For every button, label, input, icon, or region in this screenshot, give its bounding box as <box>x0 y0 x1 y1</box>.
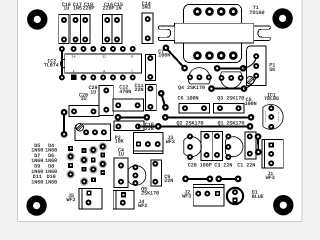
transistor Q2 2SK170 outline <box>184 137 202 157</box>
potentiometer P1 adjust screw <box>246 76 254 84</box>
capacitor C11 22N <box>134 83 156 111</box>
wire Q4 to P1 area horizontal <box>214 65 247 72</box>
svg-text:Q1 2SK170: Q1 2SK170 <box>218 121 245 127</box>
transistor Q4 pads <box>187 74 212 80</box>
connector J1 outline <box>262 140 283 168</box>
regulator IC1 78L05 outline <box>263 105 283 130</box>
label IC2 TL074 <box>44 58 59 68</box>
capacitor C20 100P <box>188 132 212 169</box>
potentiometer P2 pads <box>83 129 107 135</box>
svg-text:10K: 10K <box>115 139 124 145</box>
capacitor C15 1N <box>112 2 123 44</box>
transformer T1 right mounting fork <box>254 26 270 40</box>
label J2 WF3 <box>182 190 191 200</box>
svg-text:100N: 100N <box>158 53 170 59</box>
svg-text:BLUE: BLUE <box>252 194 264 200</box>
wire horizontal segment A (y 117) <box>115 114 150 121</box>
transformer T1 left mounting fork <box>158 26 174 40</box>
svg-text:1U: 1U <box>118 152 124 158</box>
transistor Q4 2SK170 outline <box>188 68 210 84</box>
svg-text:C3 22N: C3 22N <box>214 163 232 169</box>
svg-text:Q3 2SK170: Q3 2SK170 <box>217 96 244 102</box>
transformer T1 pads top row <box>193 7 238 16</box>
svg-text:1U: 1U <box>63 6 69 12</box>
svg-text:Q2 2SK170: Q2 2SK170 <box>177 121 204 127</box>
svg-text:3N3: 3N3 <box>142 4 151 10</box>
label J3 WF3 <box>166 135 175 145</box>
wire jumper left of J1 <box>255 133 262 155</box>
connector J3 pads <box>136 141 161 147</box>
svg-text:470N: 470N <box>119 89 131 95</box>
potentiometer P1 outline <box>247 46 266 85</box>
svg-text:WF3: WF3 <box>166 139 175 145</box>
capacitor C19 1U <box>59 2 71 44</box>
svg-text:1: 1 <box>73 69 75 73</box>
transistor Q3 2SK170 outline <box>220 72 242 88</box>
wire curve to P1 top <box>243 57 256 68</box>
svg-text:22N: 22N <box>134 87 143 93</box>
label J4 WF2 <box>138 199 147 209</box>
capacitor C10 22N <box>114 121 154 132</box>
connector J2 pads <box>195 191 220 197</box>
capacitor C1 22N <box>237 132 256 169</box>
svg-text:WF2: WF2 <box>66 197 75 203</box>
transformer T1 TO160 body <box>175 4 254 62</box>
wire above J2 left <box>182 176 213 183</box>
capacitor C5 100N <box>214 97 257 113</box>
connector J5 outline <box>79 189 102 210</box>
svg-text:C1 22N: C1 22N <box>237 163 255 169</box>
op-amp IC2 pads bottom row (pins 2-7) <box>81 74 136 80</box>
wire jumper left of IC2 <box>59 46 65 80</box>
svg-text:78L05: 78L05 <box>264 96 279 102</box>
regulator IC1 pin name marks <box>265 111 278 123</box>
connector J4 outline <box>113 190 134 209</box>
svg-text:220P: 220P <box>102 6 114 12</box>
label Q1 2SK170 <box>218 121 245 127</box>
svg-text:WF3: WF3 <box>266 175 275 181</box>
mounting hole bottom-left <box>26 195 46 215</box>
potentiometer P1 pads <box>253 53 259 78</box>
svg-text:11: 11 <box>102 55 106 59</box>
svg-text:4: 4 <box>103 69 105 73</box>
label P1 5K <box>269 63 275 73</box>
svg-text:8: 8 <box>131 55 133 59</box>
wire horizontal (y 126) <box>138 123 253 130</box>
svg-text:1N60: 1N60 <box>31 180 43 186</box>
potentiometer P2 adjust screw <box>76 123 84 131</box>
label P2 10K <box>115 135 124 145</box>
op-amp IC2 pads top row (pins 14-8) <box>71 46 136 52</box>
label J5 WF2 <box>66 193 75 203</box>
svg-text:1N: 1N <box>115 6 121 12</box>
capacitor C9 22N <box>151 160 173 186</box>
diodes D4-D11 pad grid <box>66 142 107 186</box>
wire above J2 right <box>215 176 241 183</box>
svg-text:1U: 1U <box>90 89 96 95</box>
wire jumper left of C20 <box>61 109 68 138</box>
wire curve to P1 bottom <box>244 76 256 88</box>
svg-text:100N: 100N <box>245 101 257 107</box>
capacitor C7 100N <box>145 49 170 81</box>
label T1 TO160 <box>249 5 264 16</box>
mounting hole top-right <box>272 8 292 28</box>
svg-text:1U: 1U <box>80 96 86 102</box>
mounting hole bottom-right <box>273 195 293 215</box>
capacitor C6 100N <box>178 96 210 113</box>
svg-text:C6 100N: C6 100N <box>178 96 199 102</box>
svg-text:1N60: 1N60 <box>45 180 57 186</box>
svg-text:TL074: TL074 <box>44 63 59 69</box>
label D1 BLUE <box>252 190 264 200</box>
transistor Q2 pads <box>187 133 193 160</box>
connector J3 outline <box>134 132 164 153</box>
regulator IC1 pads <box>268 105 274 130</box>
svg-text:22N: 22N <box>164 178 173 184</box>
transistor Q5 pads <box>132 164 138 186</box>
label Q4 2SK170 <box>178 85 205 91</box>
svg-text:WF2: WF2 <box>138 203 147 209</box>
svg-text:TO160: TO160 <box>249 10 264 16</box>
transistor Q1 pads <box>225 133 231 160</box>
transistor Q3 pads <box>219 75 244 81</box>
op-amp IC2 TL074 body <box>60 54 141 73</box>
capacitor C14 3N3 <box>142 1 153 43</box>
svg-text:14: 14 <box>72 55 76 59</box>
capacitor C12 470N <box>113 85 144 111</box>
mounting hole top-left <box>27 9 47 29</box>
transistor Q1 2SK170 outline <box>225 137 243 157</box>
capacitor C29 1U <box>88 85 113 115</box>
label Q3 2SK170 <box>217 96 244 102</box>
connector J4 pads <box>120 192 126 206</box>
label Q2 2SK170 <box>177 121 204 127</box>
wire horizontal segment B (y 117) <box>162 114 254 121</box>
svg-text:2SK170: 2SK170 <box>141 191 159 197</box>
svg-text:C20 100P: C20 100P <box>188 163 212 169</box>
capacitor C3 22N <box>212 132 232 169</box>
LED D1 pads <box>232 189 238 203</box>
label IC1 78L05 <box>264 92 279 102</box>
capacitor C16 220P <box>102 2 114 44</box>
capacitor C20 1U <box>69 92 99 116</box>
wire below Q3 horizontal <box>208 85 247 92</box>
transistor Q5 2SK170 outline <box>128 166 146 186</box>
label J1 WF3 <box>266 171 275 181</box>
svg-text:7: 7 <box>131 69 133 73</box>
svg-text:1N5: 1N5 <box>73 6 82 12</box>
op-amp IC2 pin 1 square pad <box>71 75 76 80</box>
potentiometer P2 outline <box>75 124 111 140</box>
wire diagonal C7 to Q4 <box>163 45 188 72</box>
labels diodes D4-D11 1N60 <box>31 143 57 185</box>
connector J5 pads <box>86 191 92 206</box>
svg-text:Q4 2SK170: Q4 2SK170 <box>178 85 205 91</box>
svg-text:220P: 220P <box>82 6 94 12</box>
connector J2 outline <box>193 185 224 206</box>
svg-text:WF3: WF3 <box>182 194 191 200</box>
capacitor C4 1U <box>114 148 128 188</box>
svg-text:5K: 5K <box>269 67 275 73</box>
op-amp IC2 pin numbers <box>72 55 133 74</box>
LED D1 BLUE outline ring <box>227 188 243 204</box>
capacitor C18 220P <box>81 2 95 44</box>
capacitor C17 1N5 <box>71 2 82 44</box>
connector J1 pads <box>268 143 274 167</box>
wire diagonal near C11 <box>158 90 169 111</box>
transformer T1 pads bottom row <box>193 51 238 60</box>
label Q5 2SK170 <box>141 187 159 197</box>
